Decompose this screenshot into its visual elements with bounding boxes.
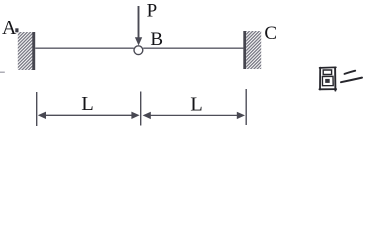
hinge circle at node B: [134, 46, 143, 55]
wall A face edge bar: [32, 32, 35, 70]
fixed support wall C (hatched): [246, 31, 261, 69]
svg-text:A: A: [2, 17, 17, 39]
svg-text:B: B: [150, 29, 163, 50]
dimension arrowhead right (at C): [237, 112, 245, 119]
extension tick at A: [36, 92, 38, 126]
svg-text:L: L: [190, 94, 203, 116]
dimension line A-B: [44, 114, 135, 116]
wire: beam segment A to B: [35, 47, 134, 49]
force arrow P head: [135, 37, 142, 45]
extension tick at C: [245, 89, 247, 125]
caption 圖 (hand-drawn figure character): [319, 67, 336, 90]
wall C face edge bar: [243, 31, 246, 69]
force arrow P shaft: [138, 6, 140, 39]
dimension arrowhead left (at A): [38, 112, 46, 119]
caption 二 (hand-drawn): [341, 71, 362, 83]
svg-text:L: L: [81, 93, 94, 115]
dimension arrowhead right (at B): [131, 112, 139, 119]
svg-text:C: C: [264, 23, 277, 44]
svg-text:P: P: [147, 1, 158, 22]
fixed support wall A (hatched): [18, 32, 33, 70]
wall corner mark at support A: [15, 28, 18, 32]
dimension line B-C: [148, 114, 239, 116]
stray mark at left page edge: [0, 71, 5, 73]
wire: beam segment B to C: [143, 47, 243, 49]
extension tick at B: [140, 92, 142, 126]
dimension arrowhead left (at B): [143, 112, 151, 119]
